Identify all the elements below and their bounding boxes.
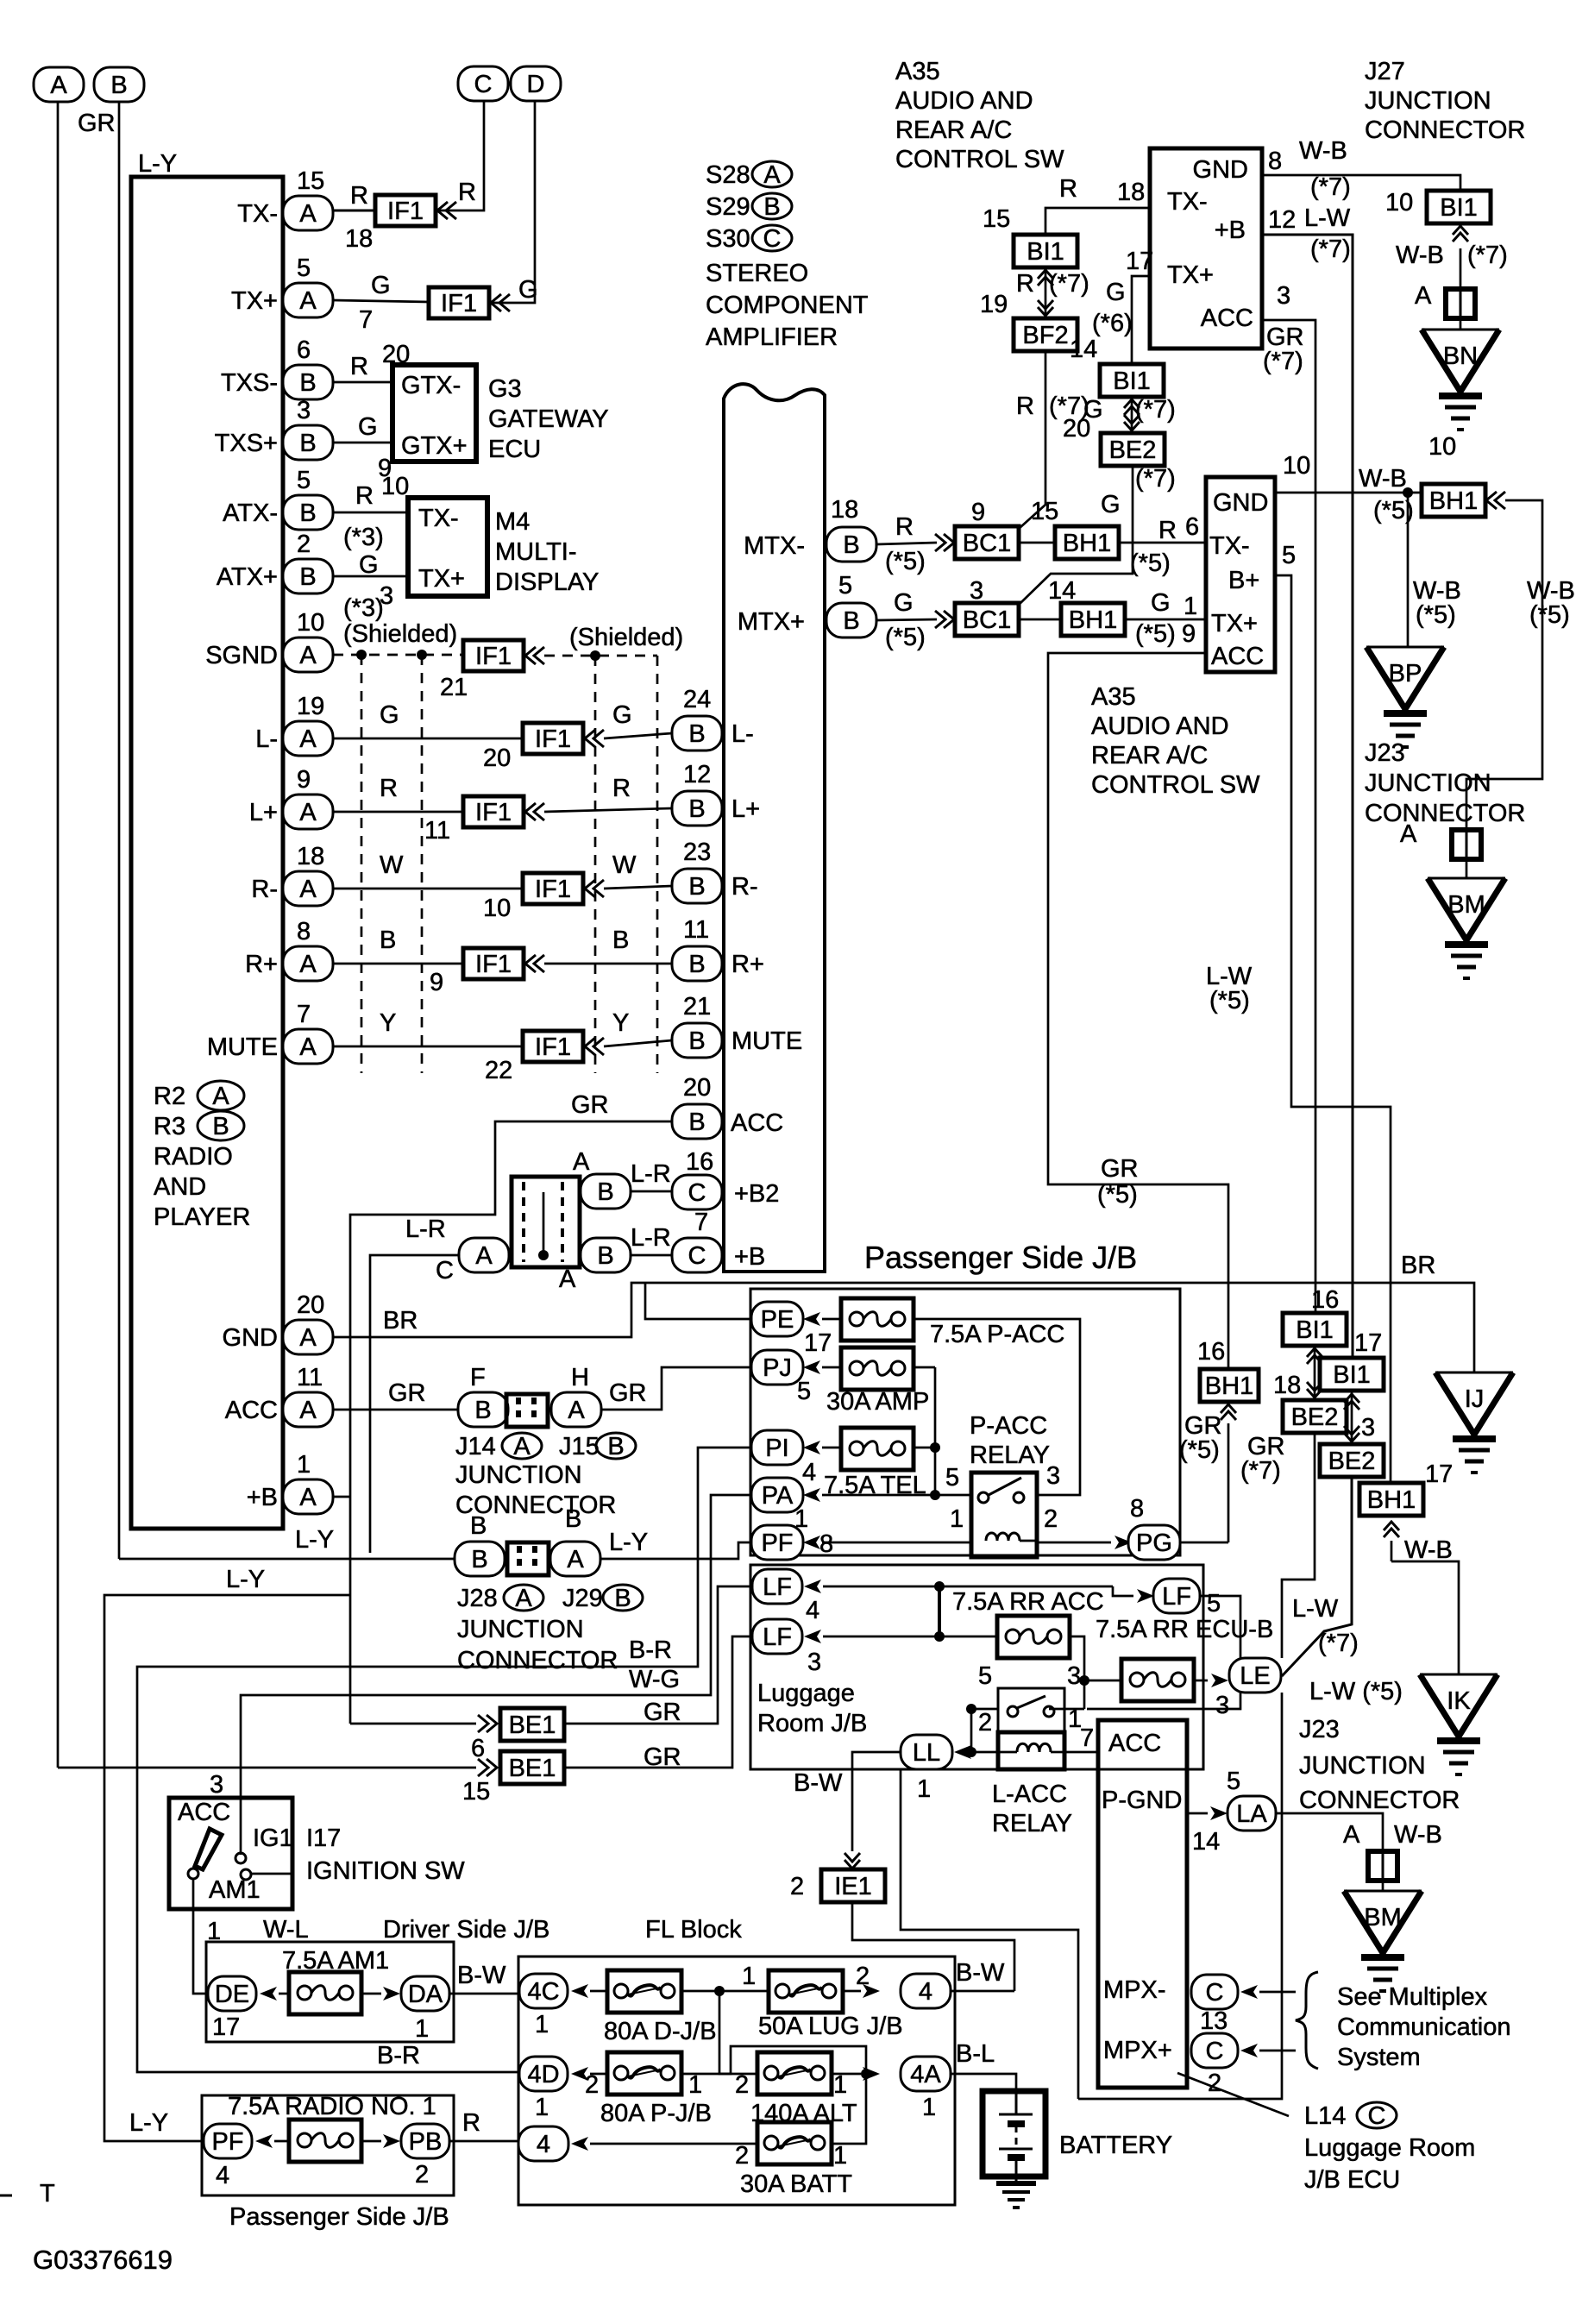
svg-text:12: 12 bbox=[1268, 206, 1296, 234]
amplifier pin 24 (L-) bbox=[672, 716, 722, 751]
svg-text:20: 20 bbox=[1063, 415, 1090, 443]
radio pin 18 (A) y=1030 bbox=[283, 871, 333, 906]
svg-text:B: B bbox=[763, 193, 780, 221]
wire fuse to 50A fuse bbox=[681, 1990, 769, 1993]
svg-text:1: 1 bbox=[833, 2071, 847, 2099]
wire GR from BE1-6 to LF pin 4 bbox=[564, 1586, 754, 1724]
svg-text:IJ: IJ bbox=[1465, 1385, 1485, 1413]
svg-text:(*7): (*7) bbox=[1135, 465, 1176, 493]
svg-text:6: 6 bbox=[1185, 513, 1199, 541]
svg-text:IF1: IF1 bbox=[535, 1033, 571, 1061]
svg-text:CONNECTOR: CONNECTOR bbox=[1365, 800, 1525, 827]
svg-text:LE: LE bbox=[1240, 1662, 1270, 1690]
connector oval D (top) bbox=[511, 66, 561, 101]
radio pin 20 (A) y=1550 bbox=[283, 1320, 333, 1354]
svg-text:10: 10 bbox=[1428, 433, 1456, 461]
svg-text:15: 15 bbox=[462, 1778, 490, 1806]
ignition key wedge bbox=[195, 1829, 222, 1869]
svg-text:50A LUG J/B: 50A LUG J/B bbox=[758, 2013, 903, 2040]
ignition AM1 contact line bbox=[252, 1873, 292, 1875]
svg-text:LF: LF bbox=[763, 1624, 792, 1651]
svg-text:B: B bbox=[688, 951, 705, 978]
relay block IE1 bbox=[821, 1869, 885, 1902]
pin PB bbox=[401, 2124, 449, 2158]
svg-text:W-L: W-L bbox=[263, 1916, 309, 1944]
svg-text:B-W: B-W bbox=[794, 1769, 843, 1797]
svg-text:8: 8 bbox=[1268, 148, 1282, 175]
svg-text:R: R bbox=[350, 182, 368, 210]
wire 4A to battery bbox=[951, 2074, 1016, 2092]
svg-text:B: B bbox=[607, 1433, 624, 1460]
relay block BE2 pin20 bbox=[1101, 433, 1165, 466]
wire LF4 fuse line bbox=[823, 1586, 1113, 1588]
svg-text:2: 2 bbox=[1044, 1505, 1058, 1533]
svg-text:2: 2 bbox=[1208, 2070, 1221, 2097]
shield junction connector box (J28/J29) bbox=[512, 1177, 580, 1267]
svg-text:20: 20 bbox=[297, 1291, 324, 1319]
svg-text:R: R bbox=[1059, 175, 1077, 203]
svg-text:10: 10 bbox=[483, 895, 511, 922]
wire BH1-15 R to A35 TX- pin6 bbox=[1118, 542, 1206, 544]
wire relay contact node to LL bbox=[971, 1708, 998, 1711]
battery ground bbox=[1015, 2176, 1018, 2183]
ground BM right bbox=[1428, 877, 1505, 880]
svg-text:JUNCTION: JUNCTION bbox=[457, 1616, 584, 1643]
wire DA to 4C B-W bbox=[449, 1993, 519, 1995]
svg-text:7: 7 bbox=[694, 1209, 708, 1236]
svg-text:L-Y: L-Y bbox=[609, 1529, 648, 1556]
svg-text:LF: LF bbox=[763, 1573, 792, 1601]
fuse 7.5A RADIO NO.1 bbox=[289, 2120, 361, 2162]
svg-text:Driver Side J/B: Driver Side J/B bbox=[383, 1916, 549, 1944]
amplifier pin ACC B20 bbox=[672, 1104, 722, 1139]
svg-text:2: 2 bbox=[415, 2161, 429, 2189]
svg-text:3: 3 bbox=[210, 1771, 223, 1799]
svg-text:SGND: SGND bbox=[205, 642, 278, 669]
svg-text:C: C bbox=[688, 1179, 706, 1207]
wire 80A P-J/B to 140A ALT zigzag bbox=[681, 2046, 866, 2074]
ground IJ bbox=[1435, 1372, 1513, 1374]
wire AM1 W-L down to DE bbox=[193, 1880, 208, 1994]
svg-text:3: 3 bbox=[1361, 1414, 1375, 1442]
svg-text:W: W bbox=[380, 851, 404, 879]
svg-text:C: C bbox=[763, 225, 782, 253]
svg-text:B+: B+ bbox=[1228, 567, 1259, 594]
svg-text:R: R bbox=[355, 482, 374, 510]
svg-text:BE2: BE2 bbox=[1328, 1448, 1376, 1475]
svg-text:J27: J27 bbox=[1365, 58, 1405, 85]
wire GR from BE1-15 to LF pin 3 bbox=[564, 1636, 754, 1768]
branch BR to PE pin bbox=[645, 1283, 754, 1319]
arrow to pin4 top bbox=[842, 1990, 861, 1993]
svg-text:1: 1 bbox=[535, 2011, 549, 2038]
svg-text:G: G bbox=[894, 589, 914, 617]
wire TXS- to gateway GTX- bbox=[333, 381, 392, 384]
svg-text:1: 1 bbox=[297, 1451, 311, 1479]
svg-text:F: F bbox=[470, 1364, 486, 1391]
svg-text:1: 1 bbox=[535, 2094, 549, 2121]
svg-text:ATX+: ATX+ bbox=[217, 563, 278, 591]
svg-text:G: G bbox=[518, 276, 538, 304]
svg-text:6: 6 bbox=[471, 1735, 485, 1762]
svg-text:7.5A RADIO NO. 1: 7.5A RADIO NO. 1 bbox=[228, 2093, 436, 2120]
svg-text:L-Y: L-Y bbox=[138, 150, 177, 178]
svg-text:+B: +B bbox=[1215, 217, 1246, 244]
svg-text:4: 4 bbox=[216, 2162, 229, 2189]
relay block BE1 pin15 bbox=[500, 1751, 564, 1784]
fuse 80A D-J/B bbox=[607, 1970, 681, 2013]
svg-text:CONNECTOR: CONNECTOR bbox=[457, 1647, 618, 1674]
svg-text:3: 3 bbox=[807, 1649, 821, 1676]
svg-text:Room J/B: Room J/B bbox=[757, 1710, 867, 1737]
amplifier pin 23 (R-) bbox=[672, 869, 722, 903]
wire B-R from 4D up to PI pin bbox=[137, 1448, 754, 2072]
wire IF1 to amplifier R+ bbox=[544, 963, 672, 965]
svg-text:GTX-: GTX- bbox=[401, 372, 461, 399]
svg-text:(*5): (*5) bbox=[1179, 1436, 1220, 1464]
svg-text:10: 10 bbox=[297, 609, 324, 637]
svg-text:A: A bbox=[299, 1324, 317, 1352]
gateway ECU G3 box bbox=[392, 365, 476, 462]
fuse 30A BATT bbox=[757, 2122, 832, 2164]
svg-text:3: 3 bbox=[970, 577, 983, 605]
wire to LE pin bbox=[1195, 1680, 1208, 1682]
pin PF with arrow bbox=[751, 1525, 803, 1560]
svg-text:17: 17 bbox=[1425, 1460, 1453, 1488]
svg-text:G: G bbox=[358, 413, 378, 441]
svg-text:MTX+: MTX+ bbox=[738, 608, 805, 636]
svg-text:15: 15 bbox=[1031, 498, 1058, 525]
svg-text:BH1: BH1 bbox=[1367, 1486, 1416, 1514]
svg-text:14: 14 bbox=[1048, 577, 1076, 605]
svg-text:S29: S29 bbox=[706, 193, 750, 221]
svg-text:BH1: BH1 bbox=[1429, 487, 1478, 515]
svg-text:A: A bbox=[299, 725, 317, 753]
pin LF5 right bbox=[1113, 1586, 1133, 1596]
svg-text:20: 20 bbox=[483, 744, 511, 772]
svg-text:(*7): (*7) bbox=[1049, 270, 1089, 298]
wire GR to BE1 pin 6 bbox=[350, 1723, 476, 1725]
fuse 80A P-J/B bbox=[607, 2052, 681, 2095]
svg-text:12: 12 bbox=[683, 761, 711, 788]
svg-text:R-: R- bbox=[251, 876, 278, 903]
svg-text:GND: GND bbox=[1213, 489, 1268, 517]
svg-text:(*7): (*7) bbox=[1467, 242, 1508, 269]
svg-text:BH1: BH1 bbox=[1063, 530, 1111, 557]
svg-text:1: 1 bbox=[742, 1963, 756, 1990]
radio pin 5 (A) y=348 bbox=[283, 283, 333, 317]
svg-text:C: C bbox=[1368, 2102, 1386, 2130]
svg-text:10: 10 bbox=[1283, 452, 1310, 480]
L-Y branch to PF pin 4 bbox=[104, 1595, 350, 2141]
svg-text:3: 3 bbox=[1277, 282, 1290, 310]
svg-text:W-B: W-B bbox=[1404, 1536, 1453, 1564]
svg-text:R: R bbox=[350, 353, 368, 380]
svg-text:G: G bbox=[1151, 589, 1171, 617]
svg-text:(*7): (*7) bbox=[1240, 1457, 1281, 1485]
svg-text:(Shielded): (Shielded) bbox=[569, 624, 683, 651]
wire BE2-20 down to BC1-3 bbox=[1020, 465, 1133, 604]
wire IF1 to amplifier MUTE bbox=[604, 1040, 672, 1046]
svg-text:C: C bbox=[688, 1242, 706, 1270]
wire IF1 to amplifier R- bbox=[604, 886, 672, 889]
svg-text:5: 5 bbox=[1282, 542, 1296, 569]
wire from D to IF1 pin 7 bbox=[489, 101, 535, 303]
wire ACC pin9 GR(*5) to BH1-16 bbox=[1048, 653, 1228, 1370]
svg-text:7.5A RR ECU-B: 7.5A RR ECU-B bbox=[1096, 1616, 1273, 1643]
svg-text:B: B bbox=[299, 430, 316, 457]
svg-text:A: A bbox=[299, 951, 317, 978]
svg-text:MUTE: MUTE bbox=[731, 1027, 802, 1055]
svg-text:JUNCTION: JUNCTION bbox=[1365, 87, 1491, 115]
wire +B pin12 L-W down right side bbox=[1262, 235, 1353, 1358]
wire LA to BM ground bbox=[1276, 1813, 1383, 1851]
wire BH1-14 G to A35 TX+ pin1 bbox=[1124, 619, 1206, 621]
relay block BH1 bottom bbox=[1359, 1483, 1423, 1516]
svg-text:(*3): (*3) bbox=[343, 594, 384, 622]
svg-text:IK: IK bbox=[1447, 1687, 1471, 1715]
fuse 7.5A AM1 bbox=[289, 1972, 361, 2014]
svg-text:GR: GR bbox=[644, 1699, 681, 1726]
svg-text:PF: PF bbox=[211, 2128, 243, 2156]
svg-text:3: 3 bbox=[297, 397, 311, 424]
audio line L+: wire radio to IF1 bbox=[333, 811, 463, 813]
svg-text:17: 17 bbox=[804, 1329, 832, 1357]
svg-text:PLAYER: PLAYER bbox=[154, 1203, 250, 1231]
svg-text:2: 2 bbox=[297, 531, 311, 558]
svg-text:BM: BM bbox=[1447, 891, 1485, 919]
wire coil pin7 to ECU ACC bbox=[1064, 1751, 1098, 1754]
svg-text:D: D bbox=[527, 71, 545, 98]
svg-text:BI1: BI1 bbox=[1113, 367, 1151, 395]
svg-text:22: 22 bbox=[485, 1057, 512, 1084]
margin tick bbox=[0, 2195, 12, 2197]
wire from C/A oval going left and down bbox=[370, 1255, 458, 1553]
svg-text:80A P-J/B: 80A P-J/B bbox=[600, 2100, 712, 2127]
svg-text:ECU: ECU bbox=[488, 436, 541, 463]
svg-text:J15: J15 bbox=[559, 1433, 600, 1460]
svg-text:7.5A RR ACC: 7.5A RR ACC bbox=[952, 1588, 1104, 1616]
svg-text:5: 5 bbox=[797, 1378, 811, 1405]
svg-text:3: 3 bbox=[1046, 1462, 1060, 1490]
chevron into BH1-16 from below bbox=[1221, 1404, 1236, 1420]
svg-text:MPX+: MPX+ bbox=[1103, 2037, 1172, 2064]
svg-text:L-W (*5): L-W (*5) bbox=[1309, 1678, 1403, 1705]
svg-text:17: 17 bbox=[1126, 248, 1153, 275]
wire 30A BATT up to 140A node bbox=[832, 2074, 866, 2144]
svg-text:A: A bbox=[559, 1266, 576, 1293]
IF1 box for L- bbox=[523, 723, 583, 754]
svg-text:(*6): (*6) bbox=[1092, 310, 1133, 337]
svg-text:5: 5 bbox=[297, 254, 311, 282]
svg-text:9: 9 bbox=[971, 499, 985, 526]
audio line R-: wire radio to IF1 bbox=[333, 888, 523, 890]
wire W-G from ignition ACC to PA pin bbox=[241, 1495, 754, 1855]
svg-text:B: B bbox=[470, 1512, 487, 1540]
svg-text:A35: A35 bbox=[1091, 683, 1136, 711]
junction connector J14 B oval bbox=[458, 1392, 508, 1427]
svg-text:FL Block: FL Block bbox=[645, 1916, 742, 1944]
relay block BI1 J27 pin 10 bbox=[1427, 191, 1491, 223]
connector oval C (top) bbox=[458, 66, 508, 101]
wire LE down to ECU box bbox=[1078, 1693, 1282, 2099]
pin 4C bbox=[519, 1974, 568, 2008]
chevron into BH1 bottom from below bbox=[1384, 1522, 1399, 1537]
svg-text:GR: GR bbox=[1101, 1155, 1139, 1183]
svg-text:(*5): (*5) bbox=[1529, 601, 1570, 629]
svg-text:BP: BP bbox=[1389, 660, 1422, 688]
radio pin 11 (A) y=1634 bbox=[283, 1392, 333, 1427]
svg-text:W-B: W-B bbox=[1396, 242, 1444, 269]
svg-text:P-ACC: P-ACC bbox=[970, 1412, 1047, 1440]
amplifier pin +B2 C16 with junction B oval bbox=[581, 1174, 631, 1209]
svg-text:CONTROL SW: CONTROL SW bbox=[1091, 771, 1260, 799]
svg-text:IG1: IG1 bbox=[253, 1825, 293, 1852]
svg-text:A: A bbox=[212, 1083, 229, 1110]
svg-text:TX+: TX+ bbox=[231, 287, 278, 315]
svg-text:COMPONENT: COMPONENT bbox=[706, 292, 869, 319]
svg-text:A: A bbox=[1415, 282, 1432, 310]
svg-text:Passenger Side J/B: Passenger Side J/B bbox=[864, 1240, 1137, 1275]
relay block BE1 pin6 bbox=[500, 1708, 564, 1741]
svg-text:A: A bbox=[475, 1242, 493, 1270]
svg-text:2: 2 bbox=[735, 2071, 749, 2099]
svg-text:GR: GR bbox=[571, 1091, 609, 1119]
svg-text:L-R: L-R bbox=[405, 1215, 446, 1243]
svg-text:A: A bbox=[299, 799, 317, 826]
svg-text:B: B bbox=[843, 607, 859, 635]
svg-text:R+: R+ bbox=[731, 951, 764, 978]
svg-text:1: 1 bbox=[917, 1775, 931, 1803]
svg-text:TXS-: TXS- bbox=[221, 369, 278, 397]
svg-text:B: B bbox=[597, 1178, 613, 1206]
svg-text:(*5): (*5) bbox=[1209, 987, 1250, 1014]
pin DE bbox=[208, 1976, 256, 2011]
svg-text:M4: M4 bbox=[495, 508, 530, 536]
svg-text:W: W bbox=[612, 851, 637, 879]
svg-text:R3: R3 bbox=[154, 1113, 185, 1140]
radio pin 8 (A) y=1117 bbox=[283, 946, 333, 981]
svg-text:L-Y: L-Y bbox=[295, 1526, 334, 1554]
wire LL to IE1 bbox=[852, 1752, 901, 1851]
svg-text:B-W: B-W bbox=[457, 1962, 506, 1989]
relay coil bbox=[986, 1533, 1020, 1541]
pin MPX- C13 bbox=[1191, 1975, 1238, 2009]
svg-text:MTX-: MTX- bbox=[744, 532, 805, 560]
svg-text:1: 1 bbox=[922, 2094, 936, 2121]
svg-text:8: 8 bbox=[1130, 1495, 1144, 1523]
IF1 box for R- bbox=[523, 873, 583, 904]
IF1 box for MUTE bbox=[523, 1031, 583, 1062]
luggage room J/B box bbox=[750, 1565, 1203, 1769]
svg-text:B: B bbox=[565, 1505, 581, 1533]
svg-text:10: 10 bbox=[381, 473, 409, 500]
svg-text:8: 8 bbox=[819, 1530, 833, 1558]
svg-text:J23: J23 bbox=[1299, 1716, 1340, 1743]
svg-text:PE: PE bbox=[761, 1306, 794, 1334]
wire TX+ pin17 G to BI1-14 bbox=[1132, 276, 1150, 365]
svg-text:G: G bbox=[371, 272, 391, 299]
junction connector J15 A oval bbox=[551, 1392, 601, 1427]
svg-text:B: B bbox=[597, 1242, 613, 1270]
svg-text:A: A bbox=[763, 161, 781, 189]
arrow to DA bbox=[361, 1993, 381, 1995]
audio and rear A/C control SW box A35 lower bbox=[1206, 477, 1275, 672]
stereo component amplifier box with wavy top bbox=[724, 384, 825, 1272]
svg-text:L-: L- bbox=[255, 725, 278, 753]
svg-text:A: A bbox=[1400, 820, 1417, 848]
svg-text:19: 19 bbox=[980, 291, 1008, 318]
shielded wire from SGND to IF1 pin 21 bbox=[333, 654, 464, 656]
svg-text:BN: BN bbox=[1443, 342, 1478, 370]
svg-text:(*5): (*5) bbox=[1416, 601, 1456, 629]
svg-text:A: A bbox=[513, 1433, 531, 1460]
wire BC1 to BH1 bbox=[1018, 542, 1057, 544]
fuse 7.5A P-ACC bbox=[841, 1298, 914, 1341]
svg-text:18: 18 bbox=[297, 843, 324, 870]
fuse 7.5A TEL bbox=[841, 1428, 914, 1470]
svg-text:BATTERY: BATTERY bbox=[1059, 2132, 1172, 2159]
shield dashed lines left pair bbox=[361, 655, 363, 1073]
svg-text:11: 11 bbox=[424, 817, 450, 845]
svg-text:2: 2 bbox=[856, 1963, 870, 1990]
svg-text:B: B bbox=[614, 1585, 631, 1612]
svg-text:R: R bbox=[1158, 517, 1177, 544]
relay block BE2 pin18 bbox=[1283, 1400, 1347, 1433]
svg-text:1: 1 bbox=[950, 1505, 964, 1533]
svg-text:G: G bbox=[612, 701, 632, 729]
svg-text:Luggage Room: Luggage Room bbox=[1304, 2134, 1475, 2162]
svg-text:R: R bbox=[895, 513, 914, 541]
svg-text:IF1: IF1 bbox=[535, 876, 571, 903]
svg-text:BH1: BH1 bbox=[1069, 606, 1117, 634]
wire P-GND to LA bbox=[1187, 1812, 1208, 1815]
svg-text:5: 5 bbox=[838, 572, 852, 600]
svg-text:3: 3 bbox=[1067, 1662, 1081, 1690]
svg-text:ACC: ACC bbox=[178, 1799, 230, 1826]
svg-text:BF2: BF2 bbox=[1022, 322, 1068, 349]
radio and player unit R2/R3 box bbox=[131, 177, 283, 1529]
svg-text:8: 8 bbox=[297, 918, 311, 945]
svg-text:BE2: BE2 bbox=[1109, 437, 1157, 464]
wire pin4 to IE1 node bbox=[951, 1990, 1014, 1993]
fuse 30A AMP bbox=[841, 1347, 914, 1390]
svg-text:IE1: IE1 bbox=[834, 1873, 872, 1900]
svg-text:BI1: BI1 bbox=[1027, 238, 1064, 266]
svg-text:7: 7 bbox=[1080, 1724, 1094, 1752]
svg-text:PF: PF bbox=[761, 1529, 793, 1557]
svg-text:IF1: IF1 bbox=[387, 198, 424, 225]
ground IK bbox=[1420, 1674, 1498, 1676]
svg-text:5: 5 bbox=[978, 1662, 992, 1690]
svg-text:TX-: TX- bbox=[237, 200, 278, 228]
svg-text:TX+: TX+ bbox=[1167, 261, 1214, 289]
wire luggage box to LE loop bbox=[901, 1769, 1078, 2099]
svg-text:2: 2 bbox=[585, 2071, 599, 2099]
relay block BH1 pin10 right bbox=[1422, 484, 1485, 517]
svg-text:JUNCTION: JUNCTION bbox=[455, 1461, 582, 1489]
radio pin 19 (A) y=856 bbox=[283, 721, 333, 756]
wire 30A BATT to pin4 bottom bbox=[590, 2143, 757, 2145]
svg-text:(*7): (*7) bbox=[1263, 348, 1303, 375]
svg-text:L+: L+ bbox=[731, 795, 760, 823]
pin MPX+ C2 bbox=[1191, 2033, 1238, 2068]
svg-text:BH1: BH1 bbox=[1205, 1372, 1253, 1400]
wire fuse to relay contact 3 bbox=[914, 1319, 1080, 1495]
svg-text:2: 2 bbox=[978, 1709, 992, 1737]
wire BE2-3 L-W down to LE diagonal bbox=[1282, 1477, 1352, 1676]
wire ATX- to display TX- bbox=[333, 512, 408, 514]
